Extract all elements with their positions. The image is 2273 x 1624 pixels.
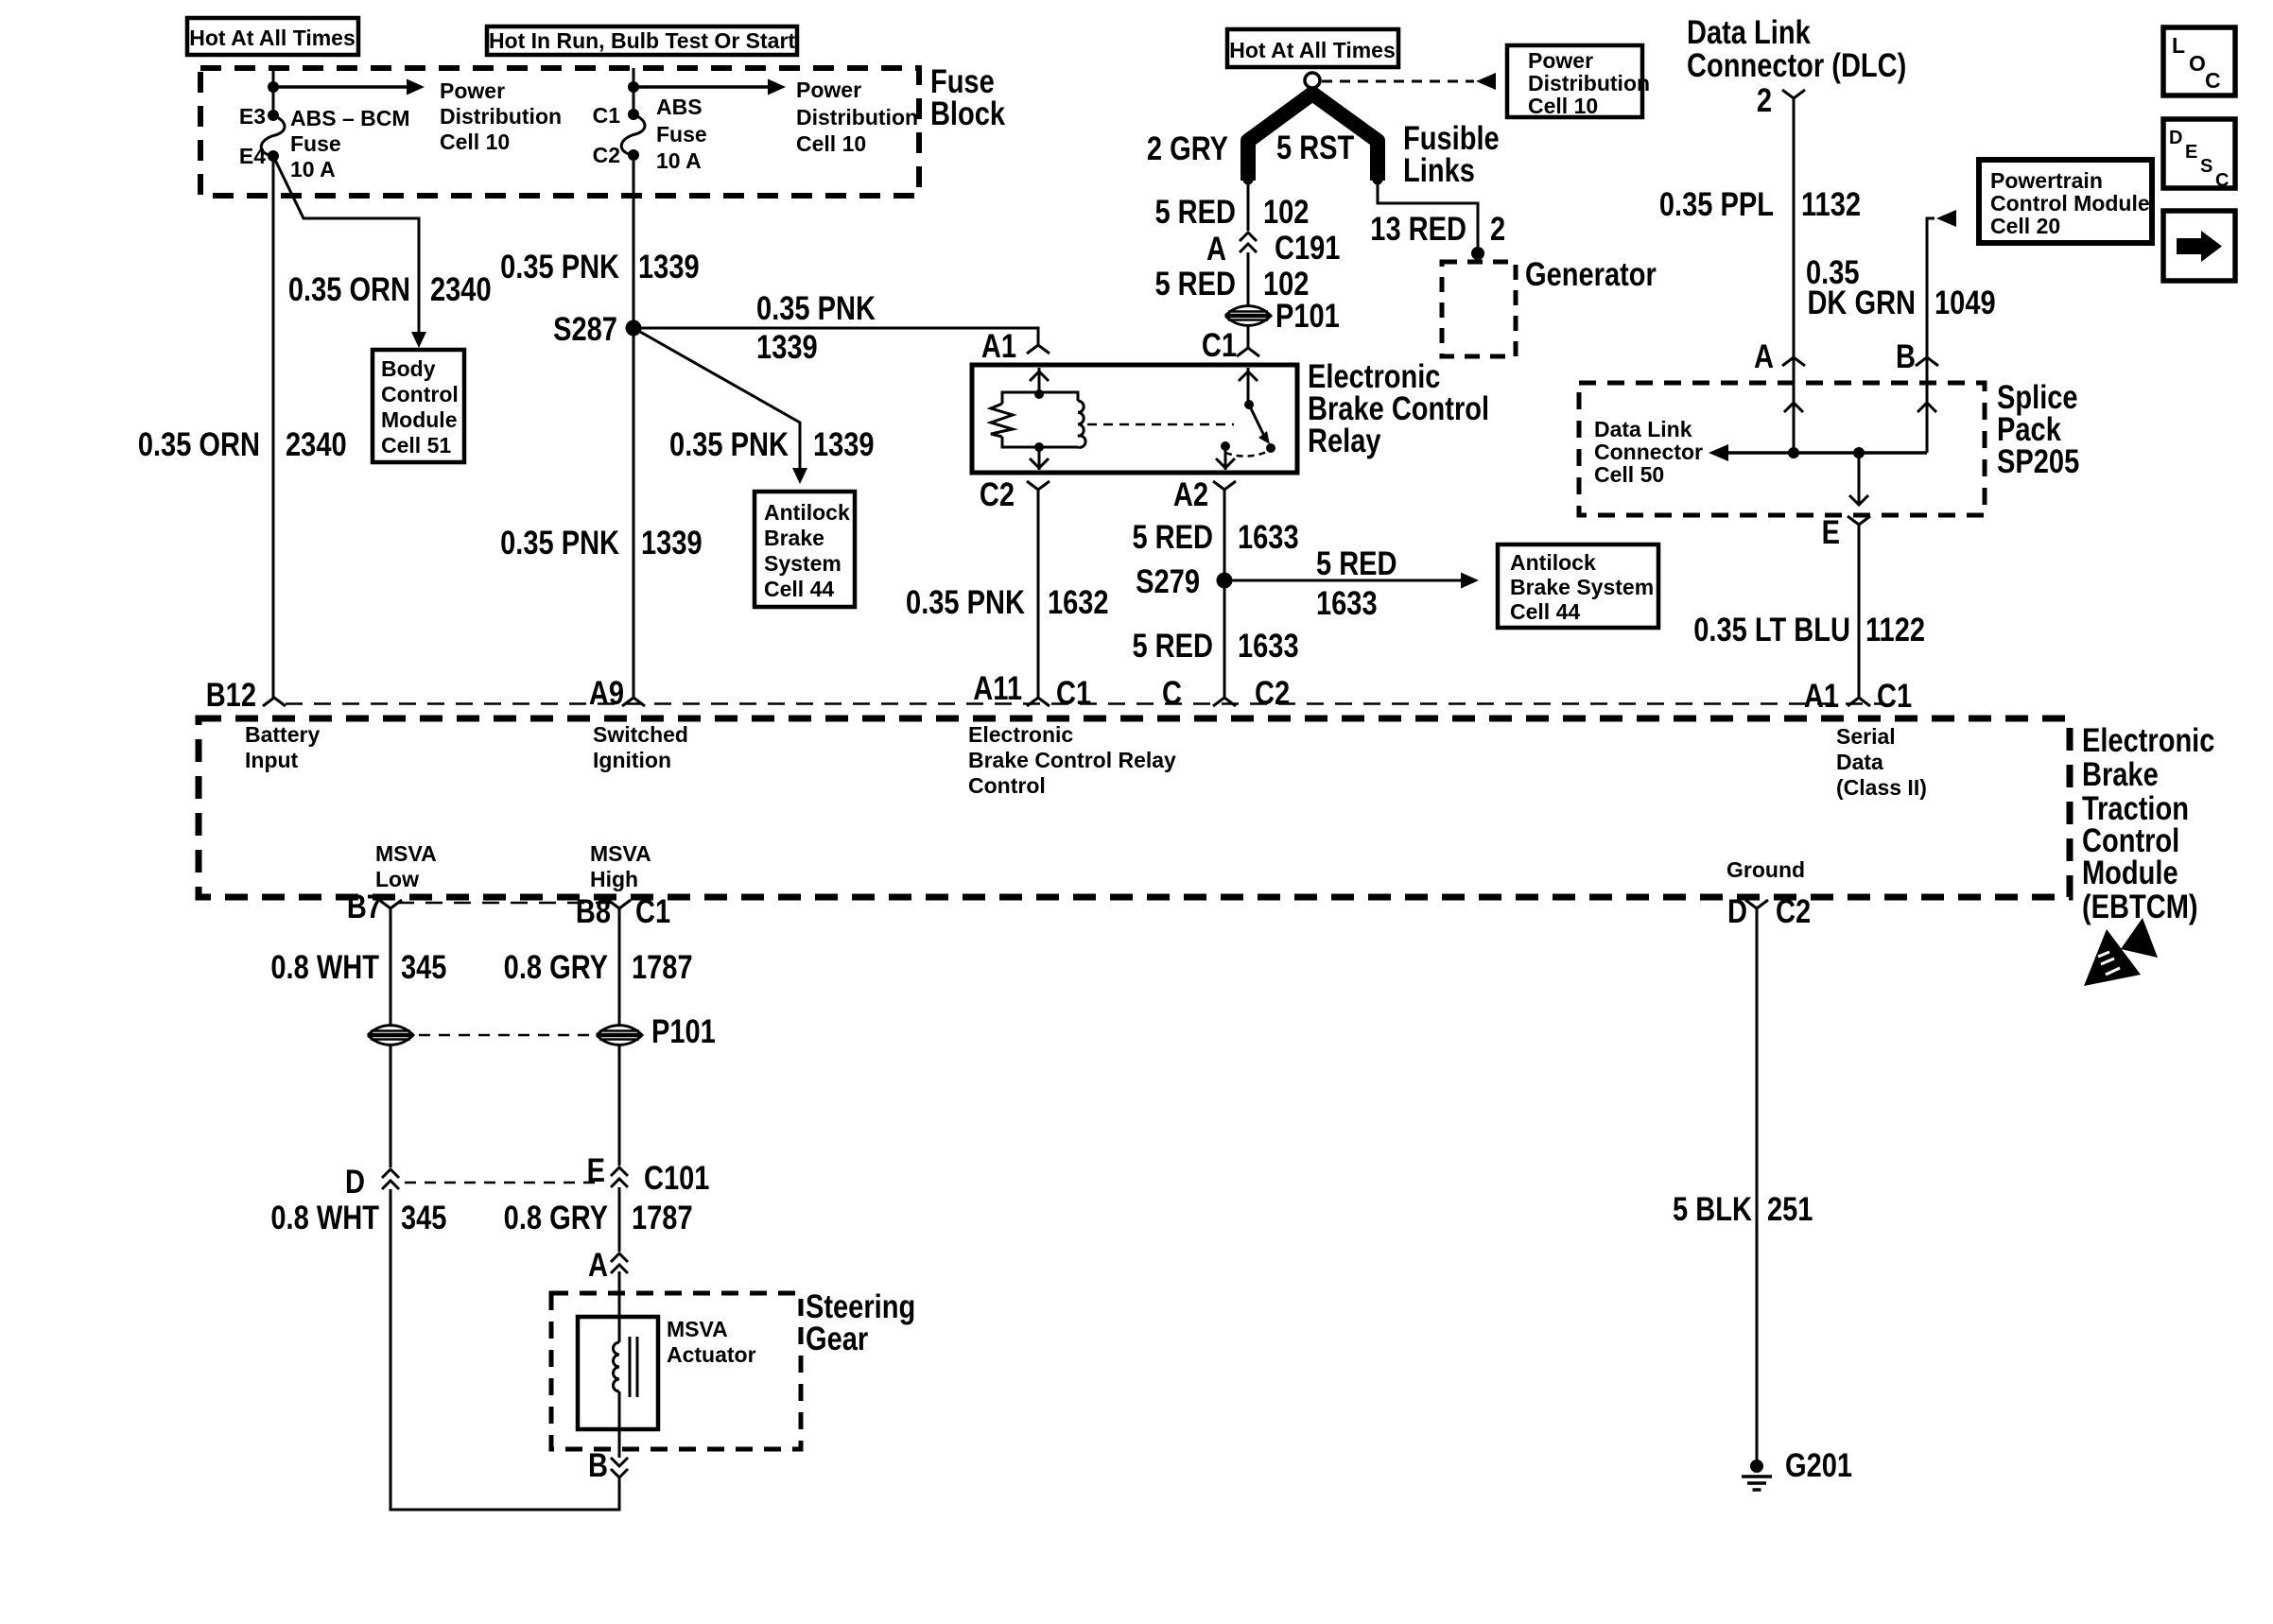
- generator dashed box: [1442, 262, 1516, 356]
- svg-text:1633: 1633: [1238, 518, 1299, 555]
- svg-text:Powertrain: Powertrain: [1990, 168, 2103, 193]
- relay resistor: [1002, 392, 1039, 404]
- svg-text:5 RED: 5 RED: [1154, 265, 1236, 302]
- wire 0.35 PNK 1632 from relay C2 to A11: [1037, 490, 1040, 700]
- EBTCM terminal row dashed line (top): [286, 702, 1882, 705]
- fuse ABS-BCM 10A: [268, 110, 279, 121]
- box Powertrain Control Module Cell 20: [1979, 160, 2152, 243]
- svg-text:C: C: [2215, 170, 2229, 191]
- node below right fusible link: [1373, 175, 1383, 185]
- svg-text:2340: 2340: [286, 425, 347, 462]
- svg-text:MSVA: MSVA: [667, 1317, 728, 1341]
- wire 5 RED 1633 arrow to Antilock Brake System (right): [1224, 579, 1462, 582]
- svg-text:Ground: Ground: [1726, 857, 1805, 882]
- connector P101 (right): [597, 1026, 642, 1045]
- wire 0.35 PNK 1339 from S287 to A9: [633, 328, 635, 700]
- svg-text:1339: 1339: [813, 425, 875, 462]
- svg-text:0.35 PNK: 0.35 PNK: [669, 425, 789, 462]
- svg-text:1633: 1633: [1316, 584, 1378, 621]
- svg-text:B8: B8: [576, 892, 611, 929]
- svg-text:L: L: [2172, 33, 2185, 58]
- wire 5 RED 1633 from S279 to C: [1223, 580, 1226, 700]
- splice pack arrow up at B: [1917, 403, 1936, 412]
- svg-text:ABS: ABS: [656, 95, 703, 119]
- svg-text:0.35 PNK: 0.35 PNK: [756, 289, 876, 326]
- svg-text:SP205: SP205: [1997, 442, 2079, 479]
- svg-text:Cell 20: Cell 20: [1990, 214, 2060, 238]
- svg-text:Cell 10: Cell 10: [1528, 94, 1598, 118]
- node relay coil bottom: [1034, 442, 1044, 452]
- svg-text:C: C: [1162, 674, 1182, 711]
- svg-text:(Class II): (Class II): [1836, 775, 1927, 800]
- svg-text:C1: C1: [1056, 674, 1091, 711]
- box Antilock Brake System Cell 44 (left): [755, 492, 855, 607]
- svg-text:Block: Block: [930, 95, 1005, 131]
- svg-text:1787: 1787: [632, 1199, 693, 1235]
- svg-text:Distribution: Distribution: [796, 105, 918, 130]
- fusible link left (5 RST): [1248, 94, 1312, 173]
- svg-text:DK GRN: DK GRN: [1807, 284, 1916, 320]
- relay switch dashed throw arc: [1225, 451, 1269, 457]
- svg-text:Hot At All Times: Hot At All Times: [1229, 38, 1396, 62]
- svg-text:C101: C101: [644, 1159, 709, 1196]
- svg-text:B: B: [1896, 337, 1916, 374]
- svg-text:Electronic: Electronic: [968, 722, 1073, 747]
- wire 0.35 LT BLU 1122 from E to A1: [1858, 525, 1861, 700]
- svg-text:Cell 10: Cell 10: [796, 131, 866, 156]
- svg-text:S: S: [2200, 156, 2212, 177]
- svg-text:Cell 10: Cell 10: [440, 130, 510, 154]
- svg-text:Power: Power: [796, 78, 861, 102]
- wire arrow to Power Distribution Cell 10 (left): [273, 85, 407, 89]
- relay switch arm: [1249, 405, 1264, 436]
- node junction at fuse 2 feed: [628, 81, 639, 93]
- ESD static sensitive symbol: [2084, 929, 2141, 986]
- svg-text:G201: G201: [1785, 1446, 1852, 1483]
- wire 0.8 WHT 345 from D to steering gear B: [390, 1189, 619, 1510]
- fusible link right (13 RED): [1312, 94, 1378, 173]
- svg-text:A: A: [1206, 230, 1226, 267]
- wire from fuse block top to C1: [633, 68, 635, 115]
- arrow into Antilock Brake System Cell 44: [792, 468, 807, 484]
- svg-text:E4: E4: [239, 144, 266, 168]
- svg-text:Electronic: Electronic: [2082, 721, 2214, 758]
- svg-text:Connector: Connector: [1594, 440, 1703, 464]
- svg-text:Module: Module: [381, 407, 458, 432]
- svg-text:E: E: [2185, 142, 2197, 163]
- wire from splice bus down to E: [1858, 453, 1861, 505]
- wire 0.35 DK GRN 1049 from splice pack B to PCM: [1927, 218, 1935, 453]
- svg-text:B12: B12: [206, 676, 256, 713]
- svg-text:Brake: Brake: [2082, 755, 2159, 792]
- node open circle battery feed: [1305, 73, 1320, 88]
- svg-text:102: 102: [1263, 193, 1309, 230]
- svg-text:C1: C1: [1202, 326, 1237, 363]
- svg-text:Links: Links: [1403, 151, 1475, 188]
- svg-text:0.35 PNK: 0.35 PNK: [906, 583, 1025, 620]
- relay coil feed stub A1: [1038, 368, 1041, 392]
- svg-text:5 RED: 5 RED: [1132, 627, 1213, 664]
- wire from fuse block top to E3: [272, 68, 275, 115]
- node below left fusible link: [1243, 175, 1254, 185]
- wire 0.35 ORN 2340 from E4 to B12: [272, 156, 275, 700]
- box Body Control Module Cell 51: [373, 350, 464, 462]
- MSVA actuator box: [578, 1317, 658, 1429]
- svg-text:Control Module: Control Module: [1990, 191, 2150, 216]
- svg-text:S287: S287: [553, 310, 617, 347]
- svg-text:1632: 1632: [1048, 583, 1109, 620]
- svg-text:P101: P101: [1275, 297, 1340, 334]
- svg-text:Input: Input: [245, 748, 299, 772]
- svg-text:High: High: [590, 867, 638, 891]
- svg-text:Antilock: Antilock: [1510, 550, 1596, 575]
- svg-text:5 BLK: 5 BLK: [1673, 1190, 1752, 1227]
- svg-text:2: 2: [1757, 81, 1772, 118]
- splice S279: [1217, 573, 1233, 589]
- svg-text:A: A: [1754, 337, 1774, 374]
- svg-text:B: B: [588, 1446, 608, 1483]
- svg-text:A11: A11: [973, 669, 1022, 706]
- svg-text:(EBTCM): (EBTCM): [2082, 888, 2198, 924]
- svg-text:Fuse: Fuse: [656, 122, 707, 147]
- C101 dashed tie line: [405, 1182, 603, 1184]
- connector P101 (left): [368, 1026, 413, 1045]
- svg-text:Hot In Run, Bulb Test Or Start: Hot In Run, Bulb Test Or Start: [489, 28, 795, 53]
- svg-text:C1: C1: [1877, 677, 1912, 714]
- ground G201: [1750, 1460, 1763, 1473]
- svg-text:Hot At All Times: Hot At All Times: [189, 26, 356, 50]
- relay switch pivot: [1244, 400, 1254, 409]
- EBTCM dashed box outline: [199, 718, 2070, 897]
- svg-text:0.35 ORN: 0.35 ORN: [138, 425, 260, 462]
- svg-text:0.35 ORN: 0.35 ORN: [288, 270, 410, 307]
- relay coil output stub to C2: [1038, 449, 1041, 470]
- svg-text:A: A: [588, 1246, 608, 1283]
- fuse block dashed outline: [200, 68, 919, 196]
- svg-text:D: D: [2169, 128, 2182, 148]
- dashed wire to Power Distribution Cell 10 (top right): [1322, 80, 1474, 83]
- svg-text:0.35 PNK: 0.35 PNK: [500, 524, 619, 561]
- svg-text:0.35 PNK: 0.35 PNK: [500, 248, 619, 285]
- svg-text:Power: Power: [1528, 48, 1593, 73]
- splice pack SP205 dashed box: [1579, 383, 1985, 515]
- svg-text:Module: Module: [2082, 854, 2178, 890]
- relay switch fixed contact: [1221, 441, 1230, 451]
- relay coil: [1039, 392, 1078, 401]
- node relay coil top: [1034, 389, 1044, 399]
- relay box Electronic Brake Control Relay: [972, 365, 1297, 473]
- box Antilock Brake System Cell 44 (right): [1498, 544, 1658, 628]
- wire 0.35 PPL 1132 from DLC to splice pack A: [1793, 98, 1796, 453]
- relay switch arm end contact: [1266, 443, 1275, 453]
- P101 dashed tie line: [419, 1034, 591, 1037]
- svg-text:Body: Body: [381, 356, 436, 381]
- MSVA actuator coil: [614, 1342, 620, 1391]
- svg-text:345: 345: [401, 1199, 446, 1235]
- svg-text:C1: C1: [635, 892, 670, 929]
- wire 0.35 PNK 1339 from fuse C2 to S287: [633, 155, 635, 328]
- relay switched output stub to A2: [1224, 449, 1227, 470]
- svg-text:Brake: Brake: [764, 526, 824, 550]
- DESC reference box: [2163, 119, 2235, 188]
- svg-text:A2: A2: [1173, 475, 1208, 512]
- svg-text:Cell 50: Cell 50: [1594, 462, 1664, 487]
- svg-text:0.35 PPL: 0.35 PPL: [1659, 185, 1774, 222]
- svg-text:Actuator: Actuator: [667, 1342, 756, 1367]
- svg-text:Fuse: Fuse: [290, 131, 341, 156]
- wire 0.8 WHT 345 from P101 to C101 D: [390, 1044, 392, 1167]
- wire 5 RED 102 to connector C191: [1247, 180, 1250, 231]
- svg-text:5 RED: 5 RED: [1316, 544, 1397, 581]
- svg-text:2: 2: [1490, 210, 1505, 247]
- svg-text:10 A: 10 A: [290, 157, 336, 181]
- svg-text:C2: C2: [1255, 674, 1290, 711]
- svg-text:Generator: Generator: [1525, 255, 1657, 292]
- svg-text:1787: 1787: [632, 948, 693, 985]
- svg-text:D: D: [345, 1163, 365, 1200]
- svg-text:Cell 44: Cell 44: [764, 577, 834, 601]
- svg-text:C2: C2: [1776, 892, 1811, 929]
- svg-text:E3: E3: [239, 104, 266, 129]
- node splice bus A: [1788, 447, 1799, 458]
- svg-text:Distribution: Distribution: [1528, 71, 1650, 95]
- svg-text:Antilock: Antilock: [764, 500, 850, 525]
- svg-text:ABS – BCM: ABS – BCM: [290, 106, 410, 130]
- svg-text:D: D: [1727, 892, 1747, 929]
- svg-text:5 RED: 5 RED: [1154, 193, 1236, 230]
- svg-text:1122: 1122: [1865, 611, 1925, 648]
- relay internal dashed link: [1087, 423, 1234, 426]
- LOC reference box: [2163, 27, 2235, 95]
- svg-text:Connector (DLC): Connector (DLC): [1687, 46, 1906, 83]
- svg-text:1339: 1339: [638, 248, 700, 285]
- svg-text:Distribution: Distribution: [440, 104, 562, 129]
- svg-text:1049: 1049: [1935, 284, 1996, 320]
- svg-text:Ignition: Ignition: [593, 748, 671, 772]
- svg-text:Brake System: Brake System: [1510, 575, 1654, 599]
- svg-text:13 RED: 13 RED: [1370, 210, 1466, 247]
- wire 13 RED 2 from fusible link to generator: [1378, 180, 1478, 247]
- splice S287: [626, 320, 642, 337]
- svg-text:C2: C2: [593, 143, 620, 167]
- svg-text:E: E: [1822, 513, 1840, 550]
- svg-text:0.8 WHT: 0.8 WHT: [270, 1199, 379, 1235]
- svg-text:345: 345: [401, 948, 446, 985]
- wire branch from S287 to Antilock Brake System: [633, 328, 800, 473]
- svg-text:5 RST: 5 RST: [1276, 129, 1355, 165]
- svg-text:P101: P101: [651, 1012, 716, 1049]
- arrow into Body Control Module: [411, 332, 426, 348]
- svg-text:Power: Power: [440, 78, 505, 103]
- node splice bus E: [1853, 447, 1865, 458]
- svg-text:Serial: Serial: [1836, 724, 1896, 749]
- svg-text:10 A: 10 A: [656, 148, 702, 173]
- svg-text:A1: A1: [1804, 677, 1839, 714]
- box Power Distribution Cell 10 (top right): [1507, 45, 1642, 117]
- svg-text:C2: C2: [980, 475, 1015, 512]
- wire 0.8 GRY 1787 from E to steering gear A: [618, 1187, 621, 1252]
- wire 0.8 GRY 1787 from P101 to C101 E: [618, 1044, 621, 1166]
- svg-text:1633: 1633: [1238, 627, 1299, 664]
- svg-text:System: System: [764, 551, 842, 576]
- wire 5 RED 102 to P101: [1247, 252, 1250, 307]
- svg-text:B7: B7: [347, 888, 382, 924]
- svg-text:C191: C191: [1275, 229, 1340, 266]
- wire arrow to Power Distribution Cell 10 (right): [633, 85, 769, 89]
- relay switch feed stub C1: [1247, 368, 1250, 401]
- EBTCM terminal row dashed line (bottom): [397, 902, 613, 905]
- wire branch from E4 to Body Control Module: [273, 156, 419, 342]
- label box Hot At All Times (left): [187, 18, 358, 55]
- svg-text:MSVA: MSVA: [375, 841, 437, 866]
- wire 5 BLK 251 from D to G201: [1756, 908, 1759, 1460]
- svg-text:1339: 1339: [756, 328, 818, 365]
- label box Hot In Run, Bulb Test Or Start: [487, 26, 797, 55]
- svg-text:2340: 2340: [430, 270, 492, 307]
- svg-text:A1: A1: [981, 327, 1016, 364]
- wire 0.35 PNK 1339 from S287 to relay A1: [633, 328, 1038, 344]
- wire from MSVA actuator to B: [618, 1391, 621, 1458]
- svg-text:MSVA: MSVA: [590, 841, 651, 866]
- wire 0.8 GRY 1787 from B8 to P101: [618, 908, 621, 1027]
- node junction at fuse 1 feed: [268, 81, 279, 93]
- wire 0.8 WHT 345 from B7 to P101: [390, 908, 392, 1027]
- fuse ABS 10A: [628, 109, 639, 120]
- svg-text:Data Link: Data Link: [1687, 13, 1811, 50]
- steering gear dashed box: [551, 1293, 801, 1449]
- svg-text:1339: 1339: [641, 524, 703, 561]
- svg-text:0.8 GRY: 0.8 GRY: [504, 948, 608, 985]
- svg-text:Data Link: Data Link: [1594, 417, 1692, 441]
- label box Hot At All Times (middle): [1227, 29, 1398, 67]
- svg-text:5 RED: 5 RED: [1132, 518, 1213, 555]
- svg-text:C1: C1: [593, 103, 621, 128]
- svg-text:Brake Control Relay: Brake Control Relay: [968, 748, 1176, 772]
- connector C191 pin A: [1240, 233, 1257, 241]
- svg-text:Cell 44: Cell 44: [1510, 599, 1580, 624]
- svg-text:0.8 GRY: 0.8 GRY: [504, 1199, 608, 1235]
- splice pack internal bus with arrow: [1726, 451, 1927, 455]
- splice pack arrow up at A: [1784, 403, 1803, 412]
- svg-text:C: C: [2205, 68, 2221, 93]
- svg-text:Data: Data: [1836, 750, 1883, 774]
- wire 5 RED 1633 from relay A2 to S279: [1223, 490, 1226, 580]
- svg-text:A9: A9: [589, 674, 624, 711]
- svg-text:Switched: Switched: [593, 722, 688, 747]
- next-page arrow box: [2163, 211, 2235, 281]
- svg-text:0.35 LT BLU: 0.35 LT BLU: [1693, 611, 1850, 648]
- svg-text:Relay: Relay: [1308, 422, 1381, 458]
- svg-text:Cell 51: Cell 51: [381, 433, 451, 458]
- svg-text:O: O: [2189, 51, 2206, 76]
- svg-text:Control: Control: [381, 382, 459, 406]
- svg-text:1132: 1132: [1801, 185, 1861, 222]
- connector P101 (middle): [1225, 306, 1271, 326]
- wire from P101 to relay C1: [1247, 325, 1250, 347]
- wire from A into MSVA actuator: [618, 1271, 621, 1342]
- svg-text:S279: S279: [1136, 562, 1200, 599]
- svg-text:Gear: Gear: [806, 1320, 869, 1356]
- svg-text:Control: Control: [968, 773, 1046, 798]
- node generator terminal: [1471, 247, 1484, 260]
- svg-text:2 GRY: 2 GRY: [1147, 130, 1228, 166]
- svg-text:Battery: Battery: [245, 722, 320, 747]
- svg-text:251: 251: [1767, 1190, 1813, 1227]
- svg-text:0.8 WHT: 0.8 WHT: [270, 948, 379, 985]
